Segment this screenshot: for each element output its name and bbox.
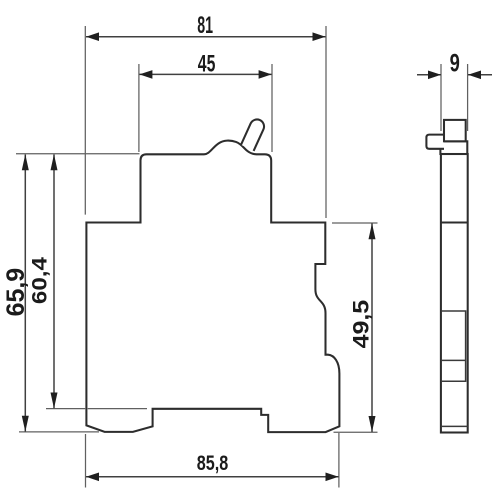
arrowhead 49,5 top xyxy=(369,223,376,239)
extension line 85,8 left xyxy=(85,434,87,488)
side view: inner divider line xyxy=(441,359,466,361)
dimension line 9 right tail xyxy=(468,74,492,76)
extension line 9 right xyxy=(467,64,469,131)
extension line 65,9 bottom xyxy=(19,431,99,433)
svg-text:81: 81 xyxy=(197,12,213,39)
arrowhead 45 left xyxy=(139,70,152,79)
extension line 45 left xyxy=(138,64,140,152)
dimension line 65,9 xyxy=(24,155,26,432)
side view: top raised rectangle xyxy=(444,120,466,141)
extension line top-left horizontal for 65,9 and 60,4 xyxy=(16,153,140,155)
extension line 49,5 top xyxy=(332,222,378,224)
svg-text:85,8: 85,8 xyxy=(197,452,229,475)
arrowhead 65,9 top xyxy=(22,154,29,170)
side view: latch knob xyxy=(426,135,444,149)
side view: bottom strip line xyxy=(441,425,468,427)
side view: inner rectangle xyxy=(441,311,466,381)
extension line 81 left xyxy=(84,26,86,215)
arrowhead 9 left xyxy=(428,71,441,80)
arrowhead 81 right xyxy=(313,32,326,41)
arrowhead 60,4 bottom xyxy=(51,393,58,409)
svg-text:60,4: 60,4 xyxy=(29,257,52,304)
extension line 81 right xyxy=(325,26,327,218)
main side-profile body outline xyxy=(86,141,339,433)
svg-text:65,9: 65,9 xyxy=(2,268,30,317)
arrowhead 9 right xyxy=(468,71,481,80)
arrowhead 85,8 left xyxy=(86,473,99,482)
extension line 60,4 bottom (outside body) xyxy=(46,408,85,410)
side view: collar rectangle xyxy=(440,141,467,154)
svg-text:49,5: 49,5 xyxy=(349,300,374,349)
dimension line 81 xyxy=(86,36,326,38)
dimension line 9 left tail xyxy=(417,74,441,76)
svg-text:9: 9 xyxy=(450,50,460,78)
arrowhead 81 left xyxy=(86,32,99,41)
arrowhead 60,4 top xyxy=(51,154,58,170)
dimension line 60,4 xyxy=(53,155,55,409)
extension line 45 right xyxy=(271,64,273,152)
toggle lever xyxy=(241,119,264,150)
dimension line 49,5 xyxy=(371,223,373,432)
dimension line 45 xyxy=(139,73,271,75)
extension line 60,4 bottom (inside body) xyxy=(88,408,147,410)
extension line 85,8 right xyxy=(338,433,340,488)
extension line 9 left xyxy=(440,64,442,131)
extension line 49,5 bottom xyxy=(334,431,378,433)
side view: main body rectangle xyxy=(441,154,468,433)
arrowhead 49,5 bottom xyxy=(369,416,376,432)
arrowhead 45 right xyxy=(259,70,272,79)
dimension line 85,8 xyxy=(86,476,339,478)
arrowhead 65,9 bottom xyxy=(22,416,29,432)
svg-text:45: 45 xyxy=(198,51,216,78)
side view: horizontal line upper xyxy=(441,221,468,223)
arrowhead 85,8 right xyxy=(326,473,339,482)
